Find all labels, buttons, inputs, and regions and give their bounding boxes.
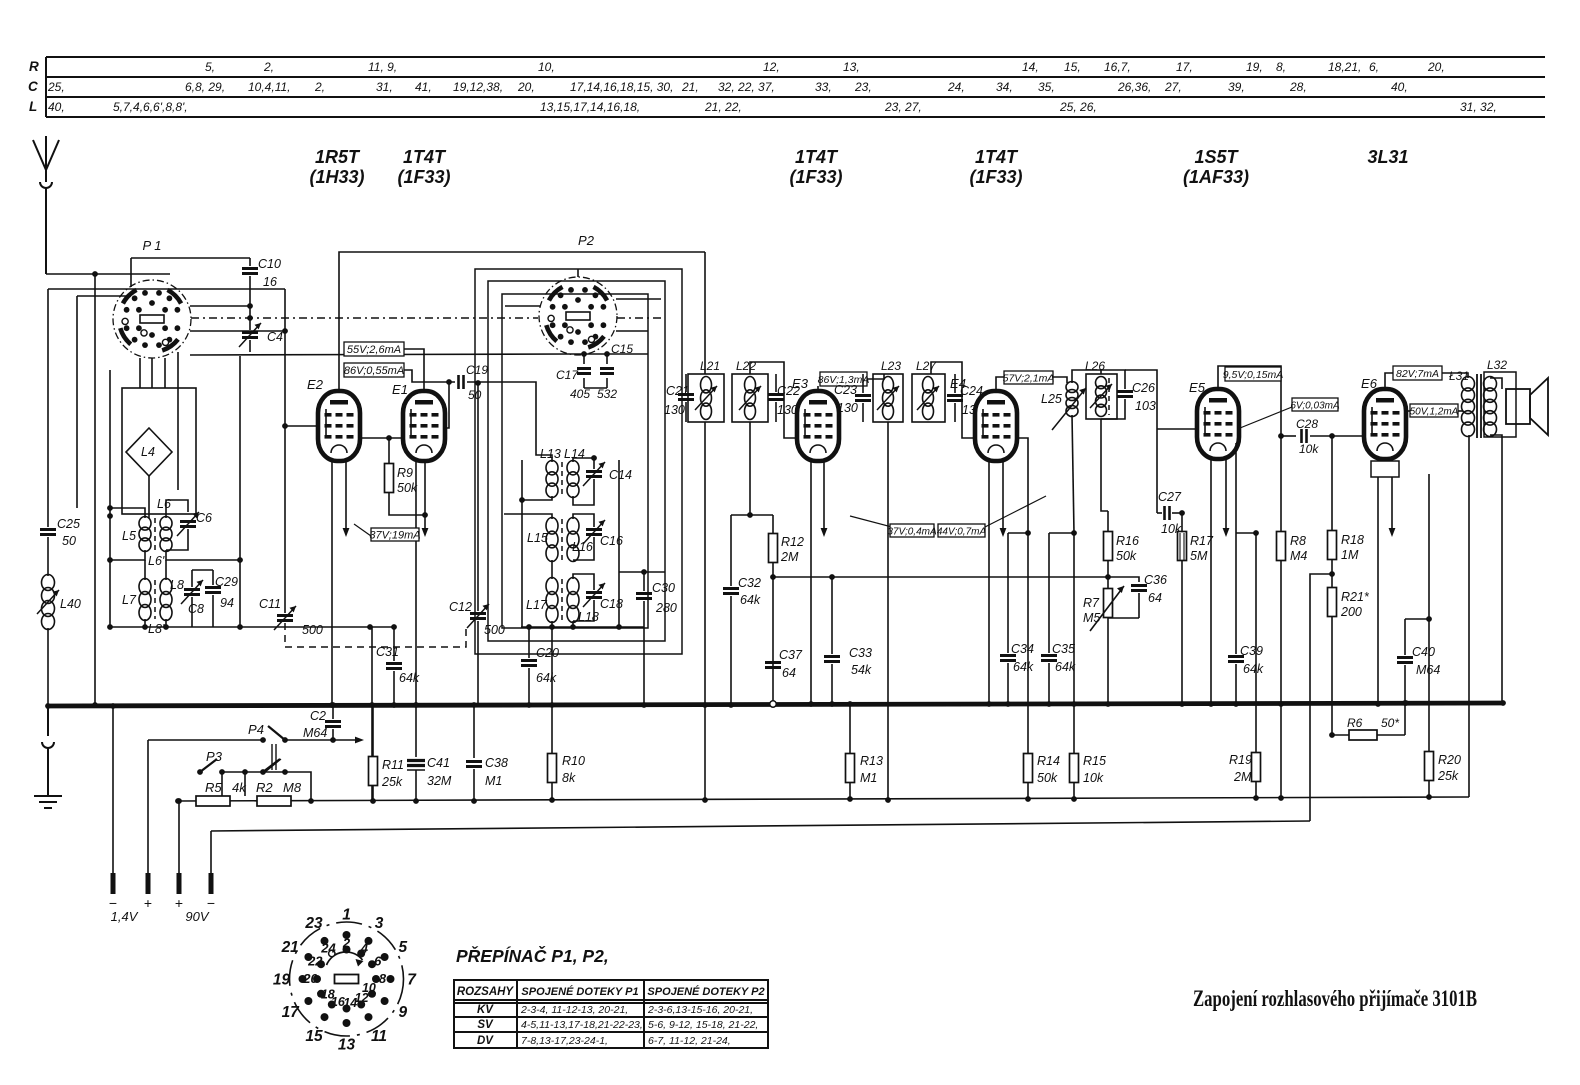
wire E4 top to 57V bbox=[996, 377, 1004, 391]
rotary switch P2 bbox=[539, 277, 617, 355]
svg-text:2M: 2M bbox=[780, 550, 799, 564]
arrow AVC bbox=[355, 737, 364, 744]
svg-text:1R5T: 1R5T bbox=[315, 147, 361, 167]
wire L27 to E4 grid bbox=[931, 362, 977, 438]
svg-text:1S5T: 1S5T bbox=[1194, 147, 1239, 167]
svg-text:64: 64 bbox=[1148, 591, 1162, 605]
node R9 top bbox=[386, 435, 392, 441]
wire y296 into P1 bbox=[77, 295, 131, 297]
gang dash-dot line P1-P2 bbox=[191, 317, 538, 319]
wire P1 to E2 grid column bbox=[190, 330, 285, 332]
svg-text:3: 3 bbox=[375, 915, 384, 932]
wire C10 to C4 bbox=[249, 276, 251, 330]
wire C26 bottom bbox=[1101, 399, 1125, 419]
wire E6 side column bbox=[1428, 474, 1430, 619]
svg-text:57V;2,1mA: 57V;2,1mA bbox=[1003, 373, 1055, 385]
coil L6 bbox=[160, 517, 172, 552]
wire tuning column x285 bbox=[284, 289, 286, 613]
top component-index table frame bbox=[46, 57, 1545, 117]
svg-text:54k: 54k bbox=[851, 663, 872, 677]
svg-text:10k: 10k bbox=[1083, 771, 1104, 785]
wire R7 bottom bbox=[1108, 617, 1139, 619]
wire C36 bottom bbox=[1138, 593, 1140, 618]
resistor R20 bbox=[1428, 619, 1430, 752]
svg-text:82V;7mA: 82V;7mA bbox=[1396, 368, 1439, 380]
svg-text:20,: 20, bbox=[1427, 60, 1445, 74]
svg-text:L7: L7 bbox=[122, 593, 137, 607]
coil L26 bbox=[1096, 377, 1107, 417]
svg-text:L6': L6' bbox=[148, 554, 165, 568]
svg-text:27,: 27, bbox=[1164, 80, 1182, 94]
svg-text:6,8, 29,: 6,8, 29, bbox=[185, 80, 225, 94]
coil L8 bbox=[160, 579, 172, 621]
svg-text:C30: C30 bbox=[652, 581, 675, 595]
node C37 open circle on bus bbox=[770, 701, 776, 707]
svg-text:L8': L8' bbox=[148, 622, 165, 636]
wire P2 right stub upper bbox=[616, 298, 661, 300]
wire C31 top bbox=[393, 627, 395, 661]
svg-text:R: R bbox=[29, 59, 39, 74]
svg-text:R11: R11 bbox=[382, 758, 404, 772]
coil L25 bbox=[1066, 382, 1078, 417]
wire into C27 bbox=[1157, 512, 1162, 514]
svg-text:E6: E6 bbox=[1361, 376, 1378, 391]
svg-text:50: 50 bbox=[62, 534, 76, 548]
measurement label 55V;2,6mA bbox=[344, 342, 404, 356]
resistor R16 bbox=[1107, 511, 1109, 532]
trimmer capacitor C8 bbox=[184, 590, 200, 595]
measurement label 44V;0,7mA bbox=[937, 524, 987, 538]
capacitor C36 bbox=[1108, 577, 1139, 582]
wire C17 lead2 bbox=[583, 378, 585, 388]
svg-text:2: 2 bbox=[342, 936, 351, 951]
svg-text:C6: C6 bbox=[196, 511, 212, 525]
svg-text:M1: M1 bbox=[860, 771, 877, 785]
wire L31 bottom stub bbox=[1468, 435, 1470, 442]
wire C27 to R17 bbox=[1172, 512, 1182, 514]
svg-text:94: 94 bbox=[220, 596, 234, 610]
svg-text:R20: R20 bbox=[1438, 753, 1461, 767]
svg-text:13,: 13, bbox=[843, 60, 860, 74]
wire C25 to L40 bbox=[47, 537, 49, 576]
svg-text:P 1: P 1 bbox=[142, 238, 161, 253]
node R12/C32 bbox=[747, 512, 753, 518]
wire C6 bottom bbox=[166, 529, 188, 550]
svg-text:M4: M4 bbox=[1290, 549, 1307, 563]
svg-text:64k: 64k bbox=[536, 671, 557, 685]
svg-text:5: 5 bbox=[398, 939, 407, 956]
svg-text:23, 27,: 23, 27, bbox=[884, 100, 922, 114]
svg-text:R14: R14 bbox=[1037, 754, 1060, 768]
wire R17 to bus bbox=[1181, 561, 1183, 704]
node x285 bbox=[282, 328, 288, 334]
wire C2 bottom bbox=[332, 729, 334, 740]
wire L18 bottom bbox=[572, 621, 574, 627]
svg-text:PŘEPÍNAČ P1, P2,: PŘEPÍNAČ P1, P2, bbox=[456, 945, 609, 966]
wire L40 to bus bbox=[47, 628, 49, 704]
wire C22 bottom bbox=[775, 402, 777, 422]
svg-text:37V;19mA: 37V;19mA bbox=[369, 530, 420, 542]
wire C24 top bbox=[954, 374, 956, 393]
capacitor C21 bbox=[678, 395, 694, 400]
svg-text:35,: 35, bbox=[1038, 80, 1055, 94]
E6 bottom cap box bbox=[1371, 461, 1399, 477]
tube type label 1R5T bbox=[309, 147, 364, 187]
wire L6 bottom bbox=[166, 550, 240, 560]
svg-text:16: 16 bbox=[263, 275, 277, 289]
svg-text:C2: C2 bbox=[310, 709, 326, 723]
capacitor C33 bbox=[829, 574, 835, 580]
svg-text:13,15,17,14,16,18,: 13,15,17,14,16,18, bbox=[540, 100, 640, 114]
measurement label 6V;0,03mA bbox=[1290, 398, 1340, 412]
dashed gang line C11-C12 bbox=[285, 623, 466, 647]
svg-text:15: 15 bbox=[305, 1028, 323, 1045]
svg-text:(1F33): (1F33) bbox=[789, 167, 842, 187]
svg-text:7-8,13-17,23-24-1,: 7-8,13-17,23-24-1, bbox=[521, 1035, 608, 1047]
svg-text:32M: 32M bbox=[427, 774, 452, 788]
svg-text:130: 130 bbox=[837, 401, 858, 415]
svg-text:21,: 21, bbox=[681, 80, 699, 94]
tube type label 1T4T #2 bbox=[789, 147, 842, 187]
wire R9 bottom bbox=[389, 493, 425, 515]
svg-text:2-3-6,13-15-16, 20-21,: 2-3-6,13-15-16, 20-21, bbox=[647, 1004, 753, 1016]
wire C24 bottom bbox=[954, 403, 956, 422]
svg-text:Zapojení rozhlasového přijímač: Zapojení rozhlasového přijímače 3101B bbox=[1193, 986, 1477, 1011]
wire C8 top bbox=[191, 570, 193, 587]
wire R21 down to R6 bbox=[1331, 617, 1333, 735]
svg-text:1T4T: 1T4T bbox=[975, 147, 1019, 167]
capacitor C35 bbox=[1049, 532, 1074, 534]
svg-text:40,: 40, bbox=[48, 100, 65, 114]
speaker bbox=[1506, 389, 1530, 424]
capacitor C28 bbox=[1281, 435, 1296, 437]
svg-text:4k: 4k bbox=[232, 780, 247, 795]
resistor R8 bbox=[1280, 436, 1282, 532]
wire L5 bottom bbox=[110, 550, 145, 560]
coil L22 box bbox=[732, 374, 768, 422]
wire to E5 grid bbox=[1157, 428, 1198, 430]
svg-text:2M: 2M bbox=[1233, 770, 1252, 784]
svg-text:L14: L14 bbox=[564, 447, 585, 461]
svg-text:50*: 50* bbox=[1381, 716, 1399, 730]
wire L22 to E3 grid bbox=[750, 362, 800, 438]
svg-text:64k: 64k bbox=[1243, 662, 1264, 676]
svg-text:41,: 41, bbox=[415, 80, 432, 94]
wire stack bottom bbox=[521, 626, 644, 628]
svg-text:R8: R8 bbox=[1290, 534, 1306, 548]
svg-text:25k: 25k bbox=[381, 775, 403, 789]
wire E2 grid tap bbox=[285, 425, 319, 427]
node C10 column bbox=[247, 303, 253, 309]
transformer core bbox=[1477, 374, 1481, 438]
node C37 bus open circle bbox=[770, 701, 776, 707]
trimmer capacitor C12 bbox=[470, 614, 486, 619]
coil L4 frame antenna box bbox=[122, 388, 196, 514]
wire C20 to bus bbox=[528, 668, 530, 704]
battery pin 1.4V minus bbox=[111, 873, 116, 894]
svg-text:C38: C38 bbox=[485, 756, 508, 770]
svg-text:50k: 50k bbox=[1037, 771, 1058, 785]
wire R12 down bbox=[772, 562, 774, 704]
battery pin 90V plus bbox=[177, 873, 182, 894]
svg-text:8: 8 bbox=[379, 971, 387, 986]
svg-text:C29: C29 bbox=[215, 575, 238, 589]
wire L32 to speaker top bbox=[1490, 378, 1502, 389]
node cage left bbox=[107, 513, 113, 519]
svg-text:R13: R13 bbox=[860, 754, 883, 768]
svg-text:R16: R16 bbox=[1116, 534, 1139, 548]
svg-text:17,14,16,18,15, 30,: 17,14,16,18,15, 30, bbox=[570, 80, 673, 94]
resistor R10 bbox=[551, 705, 553, 754]
capacitor C34 bbox=[1008, 532, 1028, 534]
capacitor C19 bbox=[459, 375, 464, 389]
wire P2 right stub lower bbox=[616, 330, 648, 332]
switch contact diagram P1/P2 bbox=[273, 907, 417, 1054]
svg-text:64k: 64k bbox=[740, 593, 761, 607]
wire C16 top bbox=[573, 514, 594, 527]
svg-text:1T4T: 1T4T bbox=[795, 147, 839, 167]
wire E4 plate down bbox=[1016, 438, 1028, 533]
svg-text:C20: C20 bbox=[536, 646, 559, 660]
wire C18 bottom bbox=[573, 600, 594, 621]
svg-text:21, 22,: 21, 22, bbox=[704, 100, 742, 114]
svg-text:9,5V;0,15mA: 9,5V;0,15mA bbox=[1223, 369, 1284, 381]
wire L8 bottom bbox=[165, 619, 167, 627]
measurement label 37V;19mA bbox=[354, 524, 371, 536]
wire R18-R21 bbox=[1331, 559, 1333, 588]
wire 82V to L31 top bbox=[1442, 373, 1468, 378]
measurement label 50V,1,2mA bbox=[1410, 404, 1459, 418]
wire grid line y289 bbox=[48, 288, 285, 290]
wire E4 cathode to bus bbox=[988, 461, 990, 704]
svg-text:4-5,11-13,17-18,21-22-23,: 4-5,11-13,17-18,21-22-23, bbox=[521, 1019, 643, 1031]
pointer 6V to E5 bbox=[1240, 407, 1292, 428]
coil L7 bbox=[139, 579, 151, 621]
wire R12 top tie bbox=[731, 514, 773, 516]
svg-text:C32: C32 bbox=[738, 576, 761, 590]
svg-text:9: 9 bbox=[398, 1004, 407, 1021]
svg-text:C25: C25 bbox=[57, 517, 80, 531]
core L26 bbox=[1108, 378, 1110, 415]
svg-text:L15: L15 bbox=[527, 531, 548, 545]
svg-text:SPOJENÉ DOTEKY P1: SPOJENÉ DOTEKY P1 bbox=[521, 985, 638, 998]
svg-text:L18: L18 bbox=[578, 610, 599, 624]
wire R15 column bbox=[1073, 533, 1075, 753]
capacitor C26 bbox=[1117, 392, 1133, 397]
svg-text:E2: E2 bbox=[307, 377, 324, 392]
core L7/L8 bbox=[154, 580, 156, 619]
svg-text:(1H33): (1H33) bbox=[309, 167, 364, 187]
svg-text:19,: 19, bbox=[1246, 60, 1263, 74]
wire C8 bottom bbox=[191, 597, 193, 627]
svg-text:18: 18 bbox=[321, 988, 335, 1002]
wire E5 cathode to bus bbox=[1210, 459, 1212, 704]
coil L23 bbox=[883, 377, 894, 420]
svg-text:P4: P4 bbox=[248, 722, 264, 737]
secondary coil L32 bbox=[1484, 377, 1497, 437]
wire E6 cathode to bus bbox=[1377, 477, 1379, 704]
wire E5 top loop bbox=[1218, 366, 1281, 436]
wire L8 top bbox=[165, 560, 167, 580]
wire pin4 up bbox=[210, 831, 212, 873]
wire pin1 to bus bbox=[112, 706, 114, 873]
svg-text:C: C bbox=[28, 79, 38, 94]
svg-text:R15: R15 bbox=[1083, 754, 1106, 768]
wire P2 top stub bbox=[577, 269, 579, 277]
svg-text:1T4T: 1T4T bbox=[403, 147, 447, 167]
wire L4 to L5 cage bbox=[148, 476, 150, 518]
svg-text:19,12,38,: 19,12,38, bbox=[453, 80, 503, 94]
trimmer capacitor C18 bbox=[586, 593, 602, 598]
wire P1 to C10 column bbox=[190, 305, 250, 307]
svg-text:26,36,: 26,36, bbox=[1117, 80, 1151, 94]
svg-text:2,: 2, bbox=[263, 60, 274, 74]
svg-text:L23: L23 bbox=[881, 359, 901, 373]
wire E1 filament with arrow bbox=[424, 461, 426, 528]
wire L21 bottom to bus bbox=[704, 422, 706, 704]
wire L25 bottom down bbox=[1072, 415, 1074, 533]
svg-text:C35: C35 bbox=[1052, 642, 1075, 656]
svg-text:L16: L16 bbox=[572, 540, 593, 554]
svg-text:21: 21 bbox=[281, 939, 299, 956]
wire P1 bottom legs bbox=[140, 352, 178, 490]
svg-text:19: 19 bbox=[273, 972, 291, 989]
wire E3 cathode to bus bbox=[810, 461, 812, 704]
wire P1 top to C10 bbox=[131, 257, 250, 259]
resistor R12 bbox=[772, 515, 774, 533]
wire R20 to wire2 bbox=[1428, 781, 1430, 797]
svg-text:C26: C26 bbox=[1132, 381, 1155, 395]
wire E2 filament with arrow bbox=[345, 461, 347, 528]
svg-text:44V;0,7mA: 44V;0,7mA bbox=[937, 527, 987, 538]
trimmer capacitor C16 bbox=[586, 530, 602, 535]
wire C39 to bus bbox=[1235, 664, 1237, 704]
wire E5 plate load bbox=[1235, 443, 1237, 533]
wire E6 filament with arrow bbox=[1391, 477, 1393, 528]
wire E3 filament with arrow bbox=[823, 461, 825, 528]
wire C30 lead bbox=[643, 572, 645, 591]
svg-text:7: 7 bbox=[407, 972, 417, 989]
svg-text:25k: 25k bbox=[1437, 769, 1459, 783]
svg-text:E1: E1 bbox=[392, 382, 408, 397]
svg-text:1M: 1M bbox=[1341, 548, 1359, 562]
capacitor C41 bbox=[415, 705, 417, 757]
wire E3 top bbox=[817, 386, 819, 391]
wire P1 box left bbox=[130, 258, 132, 287]
node antenna junction bbox=[92, 271, 98, 277]
battery pin 1.4V plus bbox=[146, 873, 151, 894]
bias line to wire3 bbox=[1310, 574, 1332, 821]
svg-text:C41: C41 bbox=[427, 756, 450, 770]
svg-text:2,: 2, bbox=[314, 80, 325, 94]
transformer L32 enclosure bbox=[1484, 372, 1516, 437]
wire R14 column bbox=[1027, 533, 1029, 753]
capacitor C29 bbox=[205, 588, 221, 593]
wire R16 to R7 bbox=[1107, 561, 1109, 588]
tube type label 1S5T bbox=[1183, 147, 1249, 187]
coil L23 box bbox=[873, 374, 903, 422]
node C12 top bbox=[475, 380, 481, 386]
wire antenna feed to P1 bbox=[46, 273, 170, 275]
svg-text:17,: 17, bbox=[1176, 60, 1193, 74]
wire L7 top bbox=[144, 560, 146, 580]
svg-text:5,: 5, bbox=[205, 60, 215, 74]
wire3 bias rail bbox=[211, 821, 1310, 831]
output transformer coil L31 bbox=[1462, 377, 1475, 437]
capacitor C10 bbox=[242, 269, 258, 274]
svg-text:25,: 25, bbox=[47, 80, 65, 94]
wire C17-C15 join bbox=[584, 387, 607, 389]
pentode E3 bbox=[797, 391, 839, 461]
wire P3 contact down bbox=[221, 772, 223, 796]
svg-text:6: 6 bbox=[374, 954, 382, 969]
trimmer capacitor C11 bbox=[277, 616, 293, 621]
svg-text:50k: 50k bbox=[1116, 549, 1137, 563]
wire E5 filament with arrow bbox=[1225, 459, 1227, 528]
svg-text:31, 32,: 31, 32, bbox=[1460, 100, 1497, 114]
resistor R11 bbox=[372, 705, 374, 757]
svg-text:50k: 50k bbox=[397, 481, 418, 495]
coil L27 bbox=[923, 377, 934, 420]
svg-text:15,: 15, bbox=[1064, 60, 1081, 74]
svg-text:KV: KV bbox=[477, 1004, 494, 1016]
wire E6 top to 82V bbox=[1385, 373, 1393, 389]
wire C33 to bus bbox=[831, 664, 833, 704]
ground bbox=[34, 706, 62, 808]
wire E1 cathode to bus bbox=[415, 461, 417, 704]
capacitor C22 bbox=[768, 395, 784, 400]
wire P1 to P2 oscillator line y355 bbox=[190, 354, 570, 355]
measurement label 82V;7mA bbox=[1393, 366, 1442, 380]
svg-text:1,4V: 1,4V bbox=[111, 909, 139, 924]
svg-text:SPOJENÉ DOTEKY P2: SPOJENÉ DOTEKY P2 bbox=[647, 985, 764, 998]
svg-text:13: 13 bbox=[338, 1037, 356, 1054]
wire C21 top bbox=[685, 374, 687, 392]
svg-text:(1F33): (1F33) bbox=[969, 167, 1022, 187]
svg-text:90V: 90V bbox=[185, 909, 209, 924]
shield box outer bbox=[475, 269, 682, 654]
svg-text:40,: 40, bbox=[1391, 80, 1408, 94]
rotary switch P1 bbox=[113, 280, 191, 358]
wire column x77 bbox=[76, 296, 78, 508]
coil L17 bbox=[546, 578, 558, 623]
wire stack cage left rail bbox=[521, 460, 523, 627]
wire stack cage right rail bbox=[618, 460, 620, 627]
pentode E4 bbox=[975, 391, 1017, 461]
antenna bbox=[33, 136, 59, 274]
capacitor C31 bbox=[386, 664, 402, 669]
svg-text:C37: C37 bbox=[779, 648, 803, 662]
svg-text:14,: 14, bbox=[1022, 60, 1039, 74]
wire C35 to bus bbox=[1048, 663, 1050, 704]
wire 86V to C19 bbox=[404, 370, 455, 382]
svg-text:16,7,: 16,7, bbox=[1104, 60, 1131, 74]
capacitor C17 bbox=[577, 369, 591, 374]
svg-text:C40: C40 bbox=[1412, 645, 1435, 659]
svg-text:22: 22 bbox=[307, 954, 323, 969]
svg-text:50V,1,2mA: 50V,1,2mA bbox=[1410, 407, 1459, 418]
wire loop to L21 top bbox=[704, 252, 706, 374]
svg-text:+: + bbox=[175, 895, 183, 911]
coil L16 bbox=[567, 518, 579, 562]
svg-text:Ł31: Ł31 bbox=[1449, 369, 1469, 383]
svg-text:C19: C19 bbox=[466, 363, 488, 377]
capacitor C40 bbox=[1404, 619, 1406, 655]
wire L17 bottom bbox=[551, 621, 553, 627]
svg-text:25, 26,: 25, 26, bbox=[1059, 100, 1097, 114]
svg-text:R21*: R21* bbox=[1341, 590, 1370, 604]
resistor R13 bbox=[849, 704, 851, 754]
